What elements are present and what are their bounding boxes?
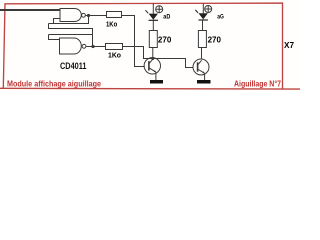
- svg-text:CD4011: CD4011: [60, 61, 87, 72]
- svg-text:aD: aD: [163, 14, 170, 21]
- svg-text:Module affichage aiguillage: Module affichage aiguillage: [7, 79, 101, 88]
- svg-text:1Ko: 1Ko: [108, 50, 121, 59]
- svg-text:Aiguillage N°7: Aiguillage N°7: [234, 79, 281, 88]
- svg-text:aG: aG: [217, 14, 224, 21]
- svg-text:270: 270: [208, 36, 222, 45]
- svg-text:270: 270: [158, 36, 172, 45]
- svg-text:X7: X7: [284, 40, 294, 50]
- svg-text:1Ko: 1Ko: [106, 19, 118, 28]
